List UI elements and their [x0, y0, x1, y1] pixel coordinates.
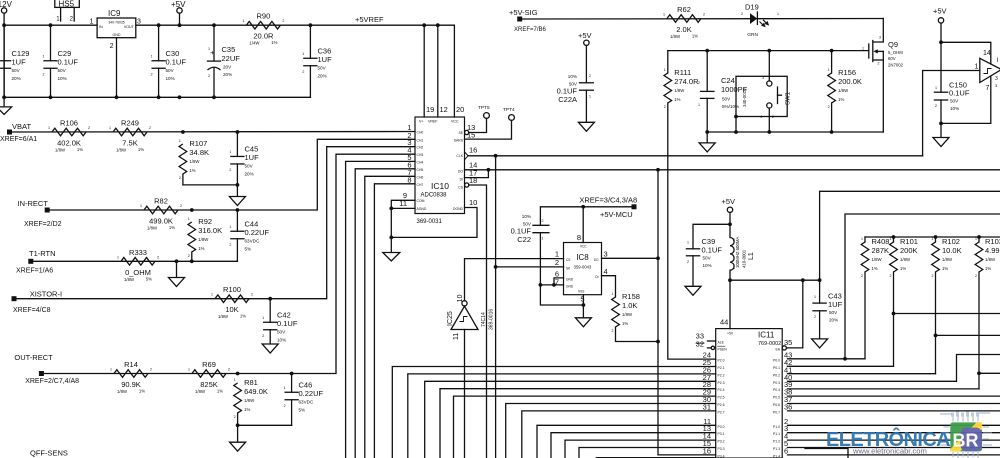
svg-text:IN: IN [99, 25, 103, 29]
svg-text:DI: DI [460, 178, 463, 182]
node VCC XREF junction [581, 205, 585, 209]
svg-text:7: 7 [986, 85, 990, 92]
svg-text:DGND: DGND [453, 207, 464, 211]
svg-text:2N7002: 2N7002 [888, 63, 904, 68]
svg-text:1%: 1% [77, 147, 83, 152]
ground symbol IC10 [383, 253, 400, 262]
svg-text:1: 1 [48, 126, 50, 130]
svg-text:90.9K: 90.9K [121, 380, 141, 389]
svg-text:VSS: VSS [578, 290, 584, 294]
node pin3 DO junction [656, 256, 660, 260]
svg-text:1: 1 [284, 386, 286, 390]
resistor R92 [188, 222, 196, 252]
wire riser IC10 pin6 [355, 169, 415, 458]
wire C150 bottom [940, 100, 942, 138]
svg-text:1/8W: 1/8W [189, 159, 200, 164]
svg-text:1: 1 [140, 204, 142, 208]
svg-text:P2.2: P2.2 [718, 373, 725, 377]
svg-text:+5V: +5V [933, 7, 947, 16]
svg-text:IC11: IC11 [758, 331, 775, 340]
node DO vertical junction [656, 168, 660, 172]
svg-text:2: 2 [150, 368, 152, 372]
svg-text:10%: 10% [568, 74, 577, 79]
node gnd rail C24 [705, 130, 709, 134]
svg-text:+: + [210, 48, 215, 57]
wire bus elbow row 27 [425, 381, 716, 458]
svg-text:1%: 1% [622, 321, 628, 326]
wire riser IC10 pin8 [374, 184, 415, 458]
svg-text:1UF: 1UF [245, 153, 260, 162]
svg-text:CH3: CH3 [417, 153, 424, 157]
node C150 gnd junction [939, 122, 943, 126]
wire R81 bottom [237, 413, 239, 425]
svg-text:20%: 20% [223, 72, 232, 77]
wire CLK riser to inverter [923, 71, 980, 156]
EEPROM IC8 body [564, 243, 602, 295]
svg-text:XREF=2/C7,4/A8: XREF=2/C7,4/A8 [25, 378, 79, 385]
svg-text:VBAT: VBAT [12, 122, 31, 131]
svg-text:10%: 10% [166, 76, 175, 81]
svg-text:P2.0: P2.0 [718, 359, 725, 363]
wire IC9 GND pin 2 down [116, 38, 118, 98]
svg-text:VCC: VCC [451, 120, 459, 124]
svg-text:R111: R111 [674, 68, 691, 77]
svg-text:XREF=3/C4,3/A8: XREF=3/C4,3/A8 [579, 195, 637, 204]
svg-text:R249: R249 [121, 119, 139, 128]
svg-text:5_OHM: 5_OHM [888, 50, 903, 55]
wire IC25 output [465, 259, 564, 301]
svg-text:340-0010: 340-0010 [742, 88, 747, 107]
svg-text:63VDC: 63VDC [245, 238, 260, 243]
node L1 +5V distribution [728, 278, 732, 282]
svg-text:34.8K: 34.8K [189, 148, 209, 157]
wire DO line [465, 169, 1000, 171]
node R101 tap [892, 312, 896, 316]
svg-text:10: 10 [469, 198, 477, 207]
svg-text:1: 1 [828, 68, 830, 72]
svg-text:2: 2 [890, 274, 892, 278]
wire R92 bottom [191, 252, 193, 261]
ground symbol C43 [812, 339, 828, 348]
node R92 bottom junction [190, 259, 194, 263]
node ground rail left [2, 95, 6, 99]
wire T1 ground stem [176, 261, 178, 277]
svg-text:2: 2 [208, 74, 210, 78]
svg-text:AGND: AGND [417, 207, 427, 211]
node +5V right junction [939, 40, 943, 44]
svg-text:1: 1 [117, 255, 119, 259]
svg-text:ADC0838: ADC0838 [421, 193, 448, 199]
node R107 top [181, 130, 185, 134]
resistor R107 [179, 144, 187, 174]
wire IC8 VSS [582, 295, 584, 305]
svg-text:+5V-MCU: +5V-MCU [600, 210, 633, 219]
svg-text:1: 1 [687, 241, 689, 245]
svg-text:IC9: IC9 [108, 9, 121, 18]
svg-text:1/8W: 1/8W [622, 312, 633, 317]
capacitor C22 [533, 224, 549, 226]
svg-text:15: 15 [467, 130, 475, 139]
svg-text:P2.7: P2.7 [718, 410, 725, 414]
svg-text:1: 1 [211, 293, 213, 297]
svg-text:4: 4 [604, 267, 608, 276]
svg-text:1: 1 [90, 19, 94, 26]
svg-text:1: 1 [262, 316, 264, 320]
wire C129 bottom [3, 68, 5, 97]
svg-text:20%: 20% [318, 73, 327, 78]
wire IC25 input down [464, 330, 466, 458]
svg-text:1: 1 [975, 237, 977, 241]
svg-text:20%: 20% [829, 318, 838, 323]
svg-text:1: 1 [589, 95, 591, 99]
wire AGND ground stem [390, 237, 392, 252]
svg-text:0.1UF: 0.1UF [58, 57, 79, 66]
svg-text:2: 2 [234, 415, 236, 419]
svg-text:+12V: +12V [0, 0, 13, 9]
svg-text:SE: SE [458, 131, 463, 135]
svg-text:+5V-SIG: +5V-SIG [509, 8, 538, 17]
svg-text:10K: 10K [225, 305, 238, 314]
wire pin37 to edge [788, 403, 1000, 405]
svg-text:1: 1 [188, 368, 190, 372]
wire Q9 gate line [668, 50, 869, 52]
svg-text:IC8: IC8 [576, 253, 589, 262]
resistor R90 [246, 21, 280, 29]
svg-text:10%: 10% [277, 337, 286, 342]
svg-text:50V: 50V [12, 68, 21, 73]
svg-text:20%: 20% [12, 76, 21, 81]
wire AGND pin11 [391, 207, 415, 209]
svg-text:1/8W: 1/8W [942, 257, 953, 262]
svg-text:50V: 50V [950, 99, 959, 104]
ground symbol R81 [230, 442, 246, 451]
wire bus elbow row 17 [596, 457, 715, 458]
svg-text:P2.1: P2.1 [718, 366, 725, 370]
wire top rail from +12V to IC9 [4, 24, 97, 26]
wire SW1 ground rail [707, 131, 883, 133]
svg-text:R14: R14 [124, 360, 138, 369]
svg-text:0.1UF: 0.1UF [277, 319, 298, 328]
svg-text:2: 2 [664, 105, 666, 109]
svg-text:CH6: CH6 [417, 175, 424, 179]
wire IC8 pin4 to R158 [602, 276, 616, 297]
inverter IC25 74C14 [451, 306, 478, 329]
svg-text:EA: EA [775, 348, 780, 352]
svg-text:DI: DI [595, 275, 598, 279]
wire CS down [469, 185, 487, 458]
svg-text:1.0K: 1.0K [622, 301, 637, 310]
svg-text:VCC: VCC [580, 245, 587, 249]
svg-text:18: 18 [469, 176, 477, 185]
resistor R408 [864, 237, 866, 242]
wire inverter pin7 return [941, 77, 991, 124]
heatsink HS5 [55, 0, 80, 7]
capacitor C24 [706, 51, 708, 92]
ground symbol C150 [933, 138, 949, 147]
svg-text:32: 32 [696, 340, 704, 349]
svg-text:1/8W: 1/8W [124, 277, 135, 282]
ground symbol C39 [685, 286, 701, 295]
svg-text:1: 1 [777, 12, 779, 16]
svg-text:3: 3 [762, 76, 764, 80]
svg-text:2: 2 [975, 274, 977, 278]
svg-text:P3.3: P3.3 [718, 447, 725, 451]
node +5V L1 junction [728, 222, 732, 226]
svg-text:649.0K: 649.0K [244, 387, 268, 396]
svg-text:1%: 1% [189, 168, 195, 173]
svg-text:P2.5: P2.5 [718, 396, 725, 400]
wire pin40 elbow [788, 355, 1000, 382]
wire +12V down to rail [3, 13, 5, 97]
wire pin43 riser [845, 214, 1000, 359]
svg-text:IC10: IC10 [431, 181, 449, 191]
svg-text:2.0K: 2.0K [676, 25, 691, 34]
svg-text:1%: 1% [674, 97, 680, 102]
wire XISTOR-I to pin3 riser [14, 147, 415, 299]
wire C43 bottom [819, 311, 821, 339]
svg-text:2: 2 [698, 81, 700, 85]
wire R408 to pin43 [788, 358, 866, 360]
svg-text:1UF: 1UF [12, 57, 27, 66]
svg-text:1%: 1% [692, 34, 698, 39]
node AGND junction [389, 207, 393, 211]
svg-text:R158: R158 [622, 292, 640, 301]
svg-text:3: 3 [604, 250, 608, 259]
svg-text:P3.1: P3.1 [718, 432, 725, 436]
svg-text:R62: R62 [677, 5, 691, 14]
node HS5 rail junction [49, 23, 53, 27]
svg-text:50V: 50V [166, 68, 175, 73]
svg-text:+5V: +5V [722, 197, 736, 206]
node C35 rail junction [212, 23, 216, 27]
svg-text:1: 1 [229, 150, 231, 154]
svg-text:P0.1: P0.1 [773, 366, 780, 370]
svg-text:1/8W: 1/8W [55, 148, 66, 153]
wire rail IC9 out to +5V [136, 24, 311, 26]
svg-text:1: 1 [698, 103, 700, 107]
ground symbol top-left [3, 97, 5, 107]
node +5V rail junction [178, 23, 182, 27]
svg-text:769-0002: 769-0002 [758, 341, 781, 347]
svg-text:SW1: SW1 [786, 91, 792, 105]
svg-text:369-0016: 369-0016 [489, 309, 495, 330]
svg-text:GND: GND [113, 33, 121, 37]
svg-text:1/8W: 1/8W [838, 88, 849, 93]
svg-text:8: 8 [407, 175, 411, 184]
wire bus elbow row 30 [506, 404, 716, 458]
svg-text:2: 2 [151, 73, 153, 77]
svg-text:TPT4: TPT4 [503, 107, 515, 113]
svg-text:316.0K: 316.0K [198, 226, 222, 235]
wire VREF feed pin20 [453, 25, 455, 117]
svg-text:TPT5: TPT5 [478, 105, 490, 111]
svg-text:2: 2 [814, 315, 816, 319]
svg-text:50V: 50V [829, 310, 838, 315]
svg-text:3: 3 [137, 19, 141, 26]
svg-text:P1.4: P1.4 [773, 454, 780, 458]
wire IC8 gnd pins 6 7 loop [554, 278, 564, 285]
ADC IC10 body [415, 117, 465, 214]
wire IC8 pin3 to DO net [602, 257, 659, 259]
capacitor C36 [304, 57, 317, 59]
svg-text:1: 1 [110, 368, 112, 372]
ground symbol T1-RTN [169, 278, 185, 287]
svg-text:1UF: 1UF [318, 55, 333, 64]
svg-text:R103: R103 [985, 237, 1000, 246]
svg-text:1: 1 [890, 237, 892, 241]
svg-text:2: 2 [88, 126, 90, 130]
wire +5V to right [730, 279, 820, 281]
resistor R333 [121, 258, 155, 266]
wire bus elbow row 25 [392, 367, 715, 458]
node C45 top [236, 130, 240, 134]
svg-text:IC25: IC25 [447, 311, 454, 326]
wire pin3 row to edge [788, 432, 1000, 434]
svg-text:C35: C35 [222, 45, 236, 54]
wire EA riser [788, 280, 803, 348]
svg-text:2: 2 [43, 73, 45, 77]
svg-text:50V: 50V [58, 68, 67, 73]
svg-text:340-76035: 340-76035 [108, 21, 124, 25]
svg-text:10%: 10% [522, 214, 531, 219]
svg-text:100MHZ 600MA: 100MHZ 600MA [735, 237, 740, 268]
svg-text:P0.0: P0.0 [773, 359, 780, 363]
svg-text:10%: 10% [58, 76, 67, 81]
wire pin5 row to edge [788, 447, 1000, 449]
svg-text:44: 44 [720, 318, 728, 327]
wire to ground [237, 425, 239, 442]
wire Q9 source down [882, 60, 884, 132]
svg-text:5%: 5% [245, 246, 252, 251]
svg-text:2: 2 [703, 13, 705, 17]
svg-text:1: 1 [229, 225, 231, 229]
wire pin36 to edge [788, 410, 1000, 412]
svg-text:1: 1 [208, 47, 210, 51]
svg-text:825K: 825K [200, 380, 218, 389]
svg-text:SARS: SARS [454, 139, 464, 143]
svg-text:2: 2 [878, 62, 880, 66]
wire stub bottom [805, 449, 848, 458]
svg-text:R333: R333 [129, 248, 147, 257]
node +12V rail junction [2, 23, 6, 27]
wire R158 bottom [616, 327, 659, 342]
svg-text:2: 2 [229, 168, 231, 172]
node C44 top [236, 208, 240, 212]
svg-text:1/8W: 1/8W [198, 237, 209, 242]
resistor R14 [114, 370, 148, 378]
svg-text:200.0K: 200.0K [838, 77, 862, 86]
node R101 top [892, 235, 896, 239]
svg-text:2: 2 [188, 254, 190, 258]
resistor R62 [667, 15, 701, 23]
node EA branch [801, 278, 805, 282]
capacitor C30 [152, 60, 165, 62]
capacitor C45 [231, 155, 244, 157]
svg-text:1: 1 [663, 13, 665, 17]
node C46 top [290, 372, 294, 376]
svg-text:XREF=7/B6: XREF=7/B6 [514, 27, 547, 33]
svg-text:1: 1 [935, 86, 937, 90]
svg-text:2: 2 [157, 255, 159, 259]
svg-text:1: 1 [43, 55, 45, 59]
svg-text:P0.2: P0.2 [773, 373, 780, 377]
wire bus elbow row 26 [408, 374, 716, 458]
capacitor C35 polarized [213, 25, 215, 61]
svg-text:1%: 1% [900, 266, 906, 271]
svg-text:GND: GND [566, 278, 574, 282]
svg-text:11: 11 [453, 333, 460, 340]
wire DI tie [465, 170, 489, 178]
svg-text:ALE: ALE [718, 341, 725, 345]
switch SW1 [767, 49, 771, 53]
svg-text:P2.3: P2.3 [718, 381, 725, 385]
svg-text:2: 2 [542, 219, 544, 223]
svg-text:2: 2 [935, 104, 937, 108]
svg-text:4.99K: 4.99K [985, 246, 1000, 255]
wire C129 top [3, 25, 5, 61]
svg-text:359-0043: 359-0043 [574, 265, 592, 270]
svg-text:1/8W: 1/8W [147, 226, 158, 231]
svg-text:1/8W: 1/8W [218, 314, 229, 319]
svg-text:60V: 60V [888, 56, 896, 61]
svg-text:R156: R156 [838, 68, 856, 77]
svg-text:CH1: CH1 [417, 138, 424, 142]
wire VREF feed pin19 [422, 23, 426, 27]
ground symbol C45 [229, 197, 245, 206]
node C45 bottom [236, 183, 240, 187]
wire AGND down [390, 208, 392, 237]
node R81 C46 bottom [236, 423, 240, 427]
svg-text:P0.4: P0.4 [773, 388, 780, 392]
svg-text:1: 1 [733, 266, 735, 270]
wire VSS gnd stem [582, 305, 584, 318]
wire IN-RECT to pin2 riser [47, 139, 415, 210]
svg-text:1/8W: 1/8W [244, 398, 255, 403]
wire DO net vertical [658, 170, 716, 455]
svg-text:22UF: 22UF [222, 54, 241, 63]
svg-text:2: 2 [612, 329, 614, 333]
svg-text:12: 12 [440, 105, 448, 114]
wire C45 to ground [236, 185, 238, 197]
inverter gate right [980, 58, 1000, 82]
svg-text:DO: DO [594, 258, 599, 262]
resistor R103 [978, 237, 980, 242]
svg-text:50V: 50V [245, 163, 254, 168]
node R102 tap [934, 334, 938, 338]
wire IC8 VCC up [582, 207, 584, 243]
svg-text:3: 3 [879, 36, 881, 40]
wire bus elbow row 15 [579, 448, 716, 458]
svg-text:10%: 10% [950, 106, 959, 111]
svg-text:2: 2 [555, 258, 559, 267]
svg-text:1: 1 [542, 237, 544, 241]
wire R102 tap right [936, 334, 1000, 336]
svg-text:1%: 1% [138, 147, 144, 152]
svg-text:R101: R101 [900, 237, 918, 246]
svg-text:XREF=4/C8: XREF=4/C8 [13, 307, 51, 314]
svg-text:GND: GND [566, 285, 574, 289]
resistor R101 [893, 237, 895, 242]
resistor R156 [830, 49, 834, 53]
resistor R249 [113, 128, 147, 136]
svg-text:1: 1 [188, 217, 190, 221]
wire T1-RTN [31, 260, 238, 262]
svg-text:1/8W: 1/8W [674, 88, 685, 93]
svg-text:DO: DO [458, 170, 463, 174]
svg-text:R106: R106 [60, 119, 78, 128]
node C42 top [268, 297, 272, 301]
node pin43 branch [843, 357, 847, 361]
